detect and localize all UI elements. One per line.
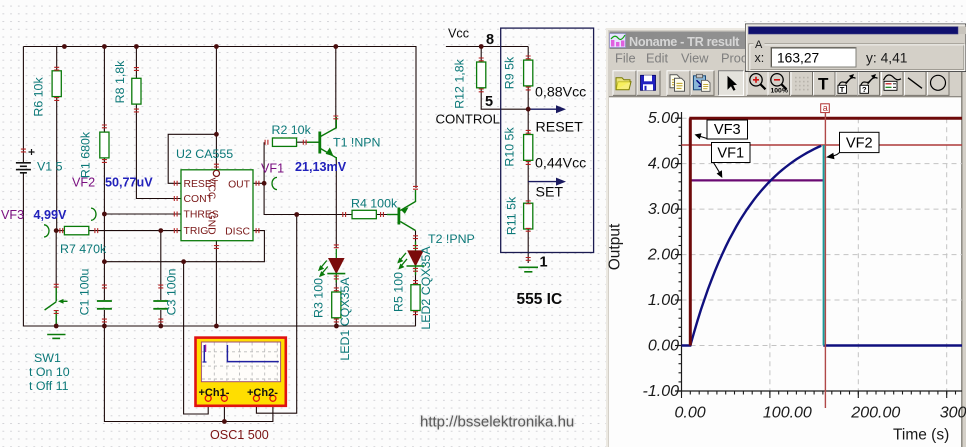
- svg-text:VF1: VF1: [261, 162, 284, 176]
- svg-text:0.00: 0.00: [648, 338, 679, 355]
- svg-text:V1 5: V1 5: [37, 160, 63, 174]
- svg-text:+Ch2-: +Ch2-: [247, 387, 278, 399]
- svg-text:200.00: 200.00: [850, 405, 900, 422]
- svg-text:1.00: 1.00: [648, 292, 679, 309]
- svg-text:Vcc: Vcc: [448, 27, 469, 41]
- svg-text:R5 100: R5 100: [392, 272, 406, 312]
- svg-text:R6 10k: R6 10k: [32, 77, 46, 117]
- svg-text:R4 100k: R4 100k: [351, 197, 398, 211]
- svg-text:TRIG: TRIG: [184, 226, 209, 237]
- svg-text:50,77uV: 50,77uV: [105, 176, 153, 190]
- svg-text:OUT: OUT: [228, 179, 251, 190]
- svg-text:T: T: [840, 85, 845, 94]
- svg-text:100%: 100%: [771, 87, 788, 94]
- svg-text:R3 100: R3 100: [312, 278, 326, 318]
- svg-text:1: 1: [540, 255, 548, 271]
- svg-text:4,99V: 4,99V: [34, 208, 68, 222]
- svg-text:T2 !PNP: T2 !PNP: [428, 232, 475, 246]
- svg-text:300.00: 300.00: [940, 405, 966, 422]
- svg-text:0,88Vcc: 0,88Vcc: [535, 85, 586, 101]
- svg-text:4.00: 4.00: [648, 156, 679, 173]
- svg-text:VF3: VF3: [714, 122, 741, 138]
- svg-text:-1.00: -1.00: [643, 383, 680, 400]
- svg-text:CONTROL: CONTROL: [436, 112, 500, 127]
- svg-text:Noname - TR result: Noname - TR result: [629, 35, 740, 49]
- svg-text:Edit: Edit: [646, 50, 668, 65]
- svg-text:R9 5k: R9 5k: [503, 56, 517, 89]
- svg-text:R11 5k: R11 5k: [505, 196, 519, 235]
- svg-text:SW1: SW1: [34, 351, 61, 365]
- svg-text:T: T: [818, 74, 829, 93]
- svg-text:3.00: 3.00: [648, 201, 679, 218]
- svg-text:R10 5k: R10 5k: [503, 127, 517, 167]
- svg-text:555 IC: 555 IC: [517, 291, 563, 308]
- svg-text:2.00: 2.00: [647, 247, 679, 264]
- svg-text:RESET: RESET: [536, 120, 584, 136]
- svg-text:a: a: [823, 103, 828, 113]
- svg-text:R2 10k: R2 10k: [272, 123, 312, 137]
- svg-text:Output: Output: [607, 223, 624, 270]
- svg-text:A: A: [755, 39, 763, 51]
- svg-text:R8 1,8k: R8 1,8k: [113, 60, 127, 104]
- svg-text:VCC: VCC: [206, 178, 217, 200]
- svg-text:VF2: VF2: [846, 136, 873, 152]
- svg-text:C1 100u: C1 100u: [78, 268, 92, 315]
- svg-text:0,44Vcc: 0,44Vcc: [535, 156, 586, 172]
- svg-text:T1 !NPN: T1 !NPN: [333, 136, 381, 150]
- svg-text:LED2 CQX35A: LED2 CQX35A: [419, 246, 433, 330]
- svg-text:5: 5: [485, 94, 493, 110]
- svg-text:?: ?: [862, 85, 867, 94]
- svg-text:0.00: 0.00: [675, 405, 706, 422]
- svg-text:View: View: [681, 50, 709, 65]
- svg-text:VF2: VF2: [72, 176, 95, 190]
- svg-text:http://bsselektronika.hu: http://bsselektronika.hu: [420, 414, 574, 431]
- svg-text:R12 1,8k: R12 1,8k: [453, 58, 467, 108]
- svg-text:GND: GND: [206, 212, 217, 235]
- svg-text:LED1 CQX35A: LED1 CQX35A: [338, 277, 352, 361]
- svg-text:8: 8: [486, 32, 494, 48]
- svg-text:VF1: VF1: [717, 146, 744, 162]
- svg-text:R1 680k: R1 680k: [79, 131, 93, 178]
- svg-text:x:: x:: [755, 51, 765, 65]
- svg-text:R7 470k: R7 470k: [60, 242, 107, 256]
- svg-text:C3 100n: C3 100n: [165, 268, 179, 315]
- svg-text:21,13mV: 21,13mV: [295, 160, 347, 174]
- svg-text:Time (s): Time (s): [893, 427, 949, 444]
- svg-text:VF3: VF3: [1, 208, 24, 222]
- svg-text:SET: SET: [536, 185, 564, 201]
- svg-text:y: 4,41: y: 4,41: [866, 51, 907, 66]
- svg-text:163,27: 163,27: [777, 51, 819, 66]
- svg-text:t On 10: t On 10: [29, 365, 70, 379]
- svg-text:U2 CA555: U2 CA555: [176, 147, 233, 161]
- svg-text:t Off 11: t Off 11: [29, 379, 69, 393]
- svg-text:DISC: DISC: [225, 227, 250, 238]
- svg-text:File: File: [615, 50, 636, 65]
- svg-text:+Ch1-: +Ch1-: [199, 387, 230, 399]
- svg-text:OSC1 500: OSC1 500: [210, 428, 269, 442]
- svg-text:5.00: 5.00: [648, 110, 679, 127]
- svg-text:100.00: 100.00: [763, 405, 812, 422]
